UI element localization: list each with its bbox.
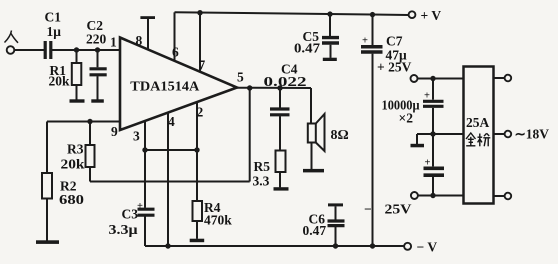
ground R5 [274, 187, 289, 190]
terminal -V [404, 243, 411, 250]
junction cap chain bottom [430, 193, 435, 198]
svg-text:220: 220 [86, 32, 107, 47]
svg-text:25V: 25V [385, 202, 412, 217]
junction pin7 rail [197, 10, 202, 15]
svg-text:C1: C1 [45, 10, 62, 25]
terminal +V [409, 11, 416, 18]
svg-text:0.022: 0.022 [264, 74, 307, 89]
wire -25V [418, 195, 464, 197]
svg-text:5: 5 [237, 70, 244, 85]
resistor R2 [42, 173, 52, 199]
svg-text:R3: R3 [67, 142, 84, 157]
svg-text:1: 1 [110, 35, 117, 50]
ground R1 [70, 99, 85, 102]
junction pin3 [142, 147, 147, 152]
svg-text:20k: 20k [49, 74, 71, 89]
junction feedback [247, 85, 252, 90]
svg-text:25A: 25A [466, 115, 490, 130]
terminal -25V [411, 192, 418, 199]
svg-text:20k: 20k [61, 157, 86, 172]
svg-text:680: 680 [59, 192, 84, 207]
feedback wire horizontal [90, 181, 250, 183]
svg-text:4: 4 [168, 114, 175, 129]
svg-text:1μ: 1μ [47, 24, 62, 39]
svg-text:9: 9 [111, 124, 118, 139]
junction C7 rail [370, 243, 375, 248]
svg-text:3.3: 3.3 [253, 174, 270, 189]
terminal +25V [411, 75, 418, 82]
svg-text:0.47: 0.47 [303, 223, 327, 238]
svg-text:+: + [424, 91, 430, 102]
svg-text:∼18V: ∼18V [515, 127, 550, 142]
ground R2 [36, 240, 59, 244]
svg-text:3: 3 [133, 129, 140, 144]
output wire pin5 [237, 87, 311, 89]
junction pin2 [194, 147, 199, 152]
svg-text:+ V: + V [421, 8, 442, 23]
pin 4 line [167, 113, 169, 246]
junction cap chain top [430, 76, 435, 81]
bridge rectifier box [464, 67, 494, 204]
wire pin2 to R4 [196, 150, 198, 201]
node junction C2 [95, 47, 100, 52]
capacitor 10000u upper [432, 79, 434, 100]
wire pin3-pin2 [145, 149, 197, 151]
capacitor C6 top bar [328, 203, 343, 206]
bridge stub mid [494, 133, 505, 135]
wire input to C1 [14, 49, 44, 51]
ground mid [416, 134, 418, 144]
speaker wire drop [310, 88, 312, 124]
svg-text:470k: 470k [204, 213, 232, 228]
svg-text:6: 6 [172, 45, 179, 60]
svg-text:C7: C7 [386, 34, 403, 49]
svg-text:TDA1514A: TDA1514A [130, 79, 200, 94]
ground speaker [303, 169, 324, 173]
top +V rail [175, 12, 409, 15]
svg-text:C3: C3 [122, 207, 139, 222]
pin 3 line [144, 121, 146, 150]
resistor R5 [276, 151, 286, 173]
svg-text:+: + [137, 201, 143, 212]
svg-text:R5: R5 [254, 159, 271, 174]
resistor R1 [76, 50, 78, 63]
resistor R4 [193, 201, 203, 221]
svg-text:− V: − V [417, 240, 438, 255]
junction mid [430, 131, 435, 136]
svg-text:+: + [425, 158, 431, 169]
junction C6 rail [333, 243, 338, 248]
input terminal [7, 46, 15, 54]
svg-text:−: − [364, 202, 372, 217]
input label 入 [5, 31, 19, 43]
pin 8 line [147, 19, 149, 50]
resistor R3 [89, 122, 91, 146]
bridge stub top [494, 77, 505, 79]
capacitor 10000u lower [424, 168, 445, 175]
pin 2 line [196, 102, 198, 150]
capacitor C1 [45, 41, 51, 59]
wire R2 drop [46, 122, 48, 174]
junction C4 [277, 85, 282, 90]
op-amp U1 TDA1514A [120, 38, 237, 131]
capacitor C2 [97, 50, 99, 67]
bar C5 [323, 58, 337, 61]
svg-text:+ 25V: + 25V [377, 60, 412, 75]
pin 9 wire [47, 121, 120, 123]
bridge stub bottom [494, 195, 505, 197]
capacitor C4 [279, 88, 281, 108]
svg-text:×2: ×2 [399, 111, 414, 126]
capacitor C6 [335, 206, 337, 219]
svg-text:3.3μ: 3.3μ [109, 222, 138, 237]
junction pin4 rail [165, 243, 170, 248]
capacitor C5 [327, 11, 332, 16]
svg-text:+: + [362, 36, 368, 47]
wire C1 to pin1 [52, 49, 120, 51]
capacitor C7 [370, 12, 375, 17]
wire +25V [418, 78, 464, 80]
ground C2 [91, 99, 104, 102]
pin 7 line [199, 13, 201, 72]
junction R3 top [87, 119, 92, 124]
ground R4 [190, 239, 205, 243]
wire mid to bridge [417, 133, 464, 135]
svg-text:0.47: 0.47 [294, 41, 320, 56]
node junction R1 [74, 47, 79, 52]
svg-text:7: 7 [199, 58, 206, 73]
feedback wire vertical [249, 88, 251, 182]
label quanqiao (Chinese: full bridge) [466, 133, 490, 146]
svg-text:2: 2 [197, 105, 204, 120]
capacitor C3 [144, 150, 146, 208]
pin 8 top bar [140, 16, 155, 19]
speaker LS [308, 124, 316, 143]
svg-text:8Ω: 8Ω [331, 128, 349, 143]
bottom -V rail [145, 245, 404, 247]
svg-text:8: 8 [136, 33, 143, 48]
pin 6 line [174, 12, 176, 61]
